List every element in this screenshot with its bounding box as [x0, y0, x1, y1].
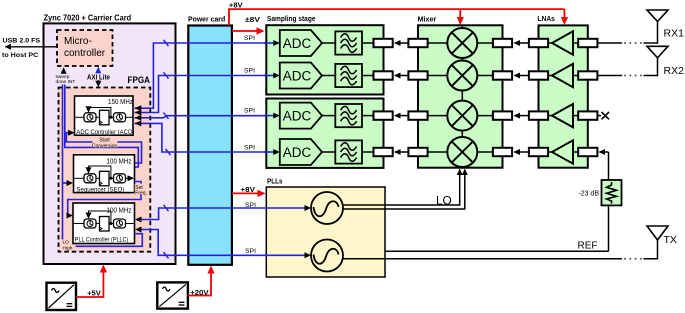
mixer M3 [408, 101, 512, 131]
wire LO chain vertical in mixer column [461, 25, 463, 137]
svg-text:SPI: SPI [245, 202, 256, 209]
svg-text:to Host PC: to Host PC [2, 52, 38, 59]
wire +5V [76, 265, 107, 298]
ADC channel 2 [280, 63, 393, 89]
ADC channel 1 [280, 30, 393, 56]
svg-text:SPI: SPI [244, 145, 255, 152]
LNA A3 [529, 104, 598, 127]
svg-text:+5V: +5V [87, 288, 101, 297]
wire LO differential pair to mixer [343, 169, 468, 210]
wire SPI PLL2 segment inside PLLs [265, 252, 311, 258]
mixer M2 [408, 61, 512, 91]
svg-text:LNAs: LNAs [537, 14, 555, 23]
svg-text:Freq.: Freq. [135, 190, 147, 196]
microcontroller U1 [57, 30, 113, 66]
LNA A2 [529, 64, 598, 87]
wire sweep done INT to micro [56, 67, 76, 85]
wire AXI Lite bus [87, 67, 110, 88]
svg-text:ADC: ADC [283, 68, 312, 83]
wire SPI ADC3 segment into sampling box [264, 113, 280, 119]
svg-text:Power card: Power card [188, 14, 225, 23]
wire mixer2 to sampling port2 [394, 73, 408, 79]
+8V arrow into PLLs [232, 185, 266, 197]
svg-text:Zync 7020 + Carrier Card: Zync 7020 + Carrier Card [44, 13, 132, 22]
svg-text:controller: controller [64, 48, 106, 59]
+8V arrow into mixer [457, 9, 464, 25]
svg-text:SPI: SPI [244, 35, 255, 42]
oscillator PLL1 [311, 192, 343, 224]
svg-text:FPGA: FPGA [128, 75, 151, 86]
antenna TX [647, 226, 677, 246]
svg-text:100 MHz: 100 MHz [107, 158, 132, 165]
wire mixer4 to sampling port4 [394, 149, 408, 155]
wire SPI PLL1 [135, 202, 311, 223]
wire LO High from PLLC [63, 234, 143, 252]
PLL controller block PLLC [73, 203, 135, 244]
svg-text:Mixer: Mixer [418, 14, 437, 23]
svg-text:done INT: done INT [56, 79, 76, 85]
plus-minus 8V arrow into sampling stage [232, 15, 265, 34]
wire REF attenuator to PLL2 [343, 205, 609, 251]
antenna RX2 [597, 46, 684, 77]
wire sweep-done from SEQ right to left vertical [65, 85, 139, 168]
svg-text:High: High [63, 246, 73, 252]
svg-text:ADC: ADC [283, 109, 312, 124]
svg-text:Sampling stage: Sampling stage [267, 14, 316, 23]
attenuator -23 dB [578, 180, 621, 205]
wire LNA4 to mixer4 [514, 149, 529, 155]
svg-text:LO: LO [63, 240, 70, 246]
ADC channel 3 [280, 103, 393, 129]
svg-text:LO: LO [436, 193, 452, 207]
wire TX output from PLL2 [343, 240, 658, 260]
svg-text:PLL Controller (PLLC): PLL Controller (PLLC) [75, 236, 129, 243]
wire LNA3 to mixer3 [514, 113, 529, 119]
svg-text:ADC: ADC [283, 145, 312, 160]
svg-text:Conversion: Conversion [92, 143, 118, 149]
svg-text:±8V: ±8V [245, 15, 260, 24]
mixer box [418, 14, 503, 167]
+8V rail from power card top [229, 9, 564, 25]
wire REF into LNA4 [599, 149, 609, 180]
power card [188, 14, 232, 264]
LNA A4 [529, 140, 598, 163]
wire LNA1 to mixer1 [514, 40, 529, 46]
svg-text:+8V: +8V [241, 185, 256, 194]
wire SPI ADC3 [135, 108, 280, 121]
sampling stage box 1 [266, 14, 383, 95]
wire +20V [188, 266, 215, 298]
ADC channel 4 [280, 139, 393, 165]
svg-text:SPI: SPI [244, 68, 255, 75]
sequencer block SEQ [74, 155, 135, 194]
wire SPI ADC4 segment into sampling box [264, 149, 280, 155]
power supply PS2 +20V [157, 282, 188, 308]
wire SPI PLL1 segment inside PLLs [265, 205, 311, 211]
wire mixer3 to sampling port3 [394, 113, 408, 119]
svg-text:-23 dB: -23 dB [578, 190, 599, 197]
svg-text:PLLs: PLLs [267, 177, 283, 186]
wire mixer1 to sampling port1 [394, 40, 408, 46]
svg-text:REF: REF [578, 240, 598, 251]
wire Start Conversion SEQ to ACQ [66, 130, 141, 163]
svg-text:Sequencer (SEQ): Sequencer (SEQ) [76, 186, 124, 193]
wire SPI ADC1 [135, 35, 280, 111]
power supply PS1 +5V [47, 283, 77, 310]
svg-text:RX2: RX2 [664, 65, 685, 77]
wire LNA2 to mixer2 [514, 73, 529, 79]
FPGA region [59, 75, 151, 252]
svg-text:+20V: +20V [190, 288, 209, 297]
terminated port X row3 [597, 112, 609, 119]
svg-text:SPI: SPI [245, 248, 256, 255]
svg-text:USB 2.0 FS: USB 2.0 FS [3, 37, 41, 44]
wire SPI PLL2 [135, 227, 311, 259]
ADC controller block ACQ [75, 96, 135, 136]
svg-text:ADC: ADC [283, 36, 312, 51]
mixer M4 [408, 137, 512, 167]
PLLs box [266, 177, 385, 278]
svg-text:ADC Controller (ACQ): ADC Controller (ACQ) [76, 129, 134, 136]
LNAs box [537, 14, 587, 168]
svg-text:Micro-: Micro- [64, 36, 92, 47]
wire USB 2.0 to host [2, 37, 57, 59]
oscillator PLL2 [311, 240, 343, 272]
svg-text:150 MHz: 150 MHz [108, 99, 133, 106]
svg-text:TX: TX [664, 234, 677, 246]
wire SPI ADC2 segment into sampling box [264, 73, 280, 79]
wire Set Freq SEQ to PLLC [67, 182, 147, 219]
mixer M1 [408, 28, 512, 58]
svg-text:+8V: +8V [229, 0, 243, 9]
wire micro to SEQ (left vertical) [63, 85, 74, 240]
sampling stage box 2 [266, 99, 383, 168]
svg-text:SPI: SPI [244, 108, 255, 115]
block: Zync 7020 + Carrier Card [44, 13, 176, 264]
LNA A1 [529, 31, 598, 54]
+8V arrow into LNAs [561, 9, 568, 25]
wire SPI ADC2 [135, 68, 280, 116]
wire SPI ADC1 segment into sampling box [264, 40, 280, 46]
svg-text:RX1: RX1 [664, 28, 685, 40]
antenna RX1 [597, 10, 684, 44]
wire SPI ADC4 [135, 120, 280, 155]
